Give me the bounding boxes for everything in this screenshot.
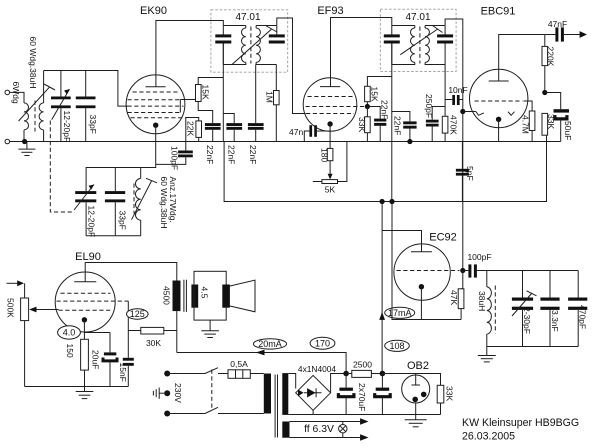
svg-text:170: 170 (315, 338, 330, 348)
secondary-speaker loop box (194, 271, 226, 320)
label 0,5A (230, 359, 248, 369)
label 100pF osc (467, 252, 491, 262)
power transformer core (275, 375, 277, 438)
svg-text:22nF: 22nF (393, 116, 403, 135)
tube EK90 (126, 75, 186, 134)
speaker voice coil (222, 285, 230, 308)
label 500K (6, 298, 16, 318)
osc tank bottom wire (487, 346, 578, 348)
label 4.5 (199, 287, 209, 299)
resistor 33K (EF93 screen divider) (365, 107, 371, 142)
dial lamp (339, 422, 347, 438)
EL90 anode wire (85, 263, 177, 282)
ground symbol OB2 (405, 420, 427, 427)
output transformer secondary 4.5 (191, 285, 198, 308)
label 1M (264, 91, 274, 103)
ground symbol osc tank (478, 347, 496, 362)
IF2 secondary top out (445, 19, 463, 100)
EL90 cathode wire (84, 320, 110, 340)
label Anz.17Wdg. (168, 177, 178, 223)
svg-text:33pF: 33pF (117, 211, 127, 230)
svg-text:108: 108 (389, 341, 404, 351)
svg-text:100pF: 100pF (170, 146, 180, 170)
bridge rectifier 4x1N4004 (296, 375, 331, 410)
label 4500 (162, 286, 172, 305)
label 4x1N4004 (298, 364, 337, 374)
label EBC91 (481, 6, 516, 18)
svg-text:4.5: 4.5 (199, 287, 209, 299)
svg-text:33K: 33K (445, 386, 455, 401)
label EF93 (317, 5, 343, 17)
L2 core dashed (133, 184, 135, 214)
resistor 15K (EK90 screen feed) (196, 78, 224, 102)
capacitor 70uF (1) (338, 374, 354, 415)
junction dot EF93 screen (365, 104, 370, 109)
label 60 Wdg.38uH osc (159, 177, 169, 229)
EK90 anode wire (156, 21, 223, 87)
svg-text:6Wdg: 6Wdg (11, 82, 21, 104)
label 470K (449, 115, 459, 135)
tube EL90 (55, 272, 128, 332)
resistor 180 (327, 148, 333, 179)
svg-text:EL90: EL90 (75, 251, 101, 263)
svg-text:15K: 15K (370, 87, 380, 102)
svg-text:26.03.2005: 26.03.2005 (462, 430, 515, 442)
label 10nF (448, 85, 467, 95)
capacitor 3.3nF (540, 271, 559, 347)
mains terminal PE (159, 390, 170, 396)
svg-text:50uF: 50uF (563, 121, 573, 140)
B+ line down with 17mA (381, 202, 383, 374)
potentiometer 500K (21, 283, 29, 386)
label 12-20pF osc (86, 206, 96, 238)
svg-text:100pF: 100pF (467, 252, 491, 262)
resistor 15K (EF93 screen) (365, 77, 392, 107)
capacitor 470pF (568, 271, 587, 347)
resistor 30K (128, 327, 176, 334)
svg-text:EBC91: EBC91 (481, 6, 516, 18)
svg-text:15nF: 15nF (118, 363, 128, 382)
svg-text:20mA: 20mA (258, 339, 282, 349)
capacitor 15nF (123, 358, 134, 387)
500K wiper arrow to EL90 grid (29, 307, 58, 313)
resistor 1M (AVC) (274, 65, 280, 142)
label 47n (289, 127, 303, 137)
EC92 anode wire (382, 231, 421, 252)
capacitor 22nF (B+ decoupling) (392, 112, 417, 142)
input arrow to 500K (7, 280, 25, 286)
junction dots B+ bus (380, 199, 395, 204)
switch link dashed (211, 370, 213, 411)
IF1 capacitor primary (215, 34, 231, 64)
IF2 capacitor secondary (437, 26, 453, 44)
heater wire bottom (290, 434, 369, 441)
antenna terminal J1 (5, 90, 24, 103)
label 6Wdg (11, 82, 21, 104)
svg-text:5pF: 5pF (465, 166, 475, 181)
svg-text:180: 180 (320, 148, 330, 162)
svg-text:15K: 15K (200, 85, 210, 100)
screen feed line to 15nF (127, 301, 129, 358)
junction dot 22nF B+ ground (407, 139, 412, 144)
svg-text:EC92: EC92 (429, 232, 457, 244)
power transformer HV secondary (282, 373, 288, 415)
output transformer primary 4500 (173, 281, 181, 353)
heater wire top (290, 418, 369, 425)
svg-text:4.0: 4.0 (63, 328, 76, 338)
ellipse 4.0 (58, 326, 81, 339)
ground symbol antenna (18, 142, 35, 156)
IF1 tuning arrow (232, 26, 277, 65)
EBC91 diode plate left (476, 112, 484, 116)
IF2 tuning arrow (400, 25, 442, 55)
svg-text:1M: 1M (264, 91, 274, 103)
switch pole 1 (205, 368, 228, 374)
label 33pF osc (117, 211, 127, 230)
variable capacitor 2-30pF (512, 271, 537, 347)
ellipse 20mA (253, 339, 286, 349)
junction dot 220K bottom (542, 90, 547, 95)
svg-text:22K: 22K (186, 121, 196, 136)
15K bottom to 22nF-1 (198, 102, 213, 124)
label 2500 (353, 360, 372, 370)
EC92 cathode return wire (392, 202, 461, 320)
svg-text:47K: 47K (449, 290, 459, 305)
svg-text:22nF: 22nF (379, 100, 389, 119)
EBC91 diode plate right (508, 112, 515, 116)
IF2 secondary coil (425, 26, 445, 65)
label EC92 (429, 232, 457, 244)
svg-text:4x1N4004: 4x1N4004 (298, 364, 337, 374)
antenna coil L1 secondary (39, 71, 44, 142)
IF1 secondary coil (256, 26, 277, 65)
svg-text:EF93: EF93 (317, 5, 343, 17)
svg-text:220K: 220K (546, 47, 556, 67)
label 250pF (424, 94, 434, 118)
20mA arrow (256, 350, 265, 356)
capacitor 100pF (osc) (463, 264, 578, 277)
IF2 secondary bottom line (444, 44, 446, 117)
speaker cone (230, 280, 255, 312)
svg-text:30K: 30K (146, 338, 161, 348)
label 15nF (118, 363, 128, 382)
IF transformer 2 box (380, 9, 456, 71)
bridge output wire (331, 374, 347, 393)
resistor 22K (osc grid leak) (196, 121, 202, 142)
cathode ground bus (25, 386, 129, 388)
mains terminal L (164, 371, 205, 377)
EK90 cathode wire (155, 125, 157, 167)
svg-text:125: 125 (130, 309, 145, 319)
potentiometer 5K (313, 142, 347, 184)
capacitor 70uF (2) (375, 374, 391, 415)
capacitor 250pF (426, 107, 445, 142)
capacitor 20uF (103, 333, 117, 387)
IF1 capacitor secondary (269, 26, 285, 44)
ellipse 108 (385, 340, 410, 351)
junction dot antenna ground (22, 139, 27, 144)
svg-text:20uF: 20uF (91, 350, 101, 369)
EK90 screen bracket g2+g4 (180, 85, 198, 113)
label 47.01 (235, 12, 260, 23)
38uH core dashed (494, 286, 496, 334)
17mA arrow (379, 312, 385, 320)
svg-text:12-20pF: 12-20pF (86, 206, 96, 238)
label 33K EBC91 (546, 114, 556, 129)
tube OB2 (402, 374, 430, 420)
svg-text:22nF: 22nF (205, 145, 215, 164)
svg-text:10nF: 10nF (448, 85, 467, 95)
oscillator tank top wire (86, 168, 156, 192)
EBC91 cathode wire (498, 119, 500, 141)
capacitor 22nF (2) (226, 123, 242, 141)
svg-text:3.3nF: 3.3nF (550, 310, 560, 332)
L2 trimmer arrow (132, 178, 158, 219)
label 22nF (1) (205, 145, 215, 164)
oscillator coil L2 (136, 168, 141, 236)
svg-text:47.01: 47.01 (405, 12, 430, 23)
label 22nF EF93-2 (393, 116, 403, 135)
IF2 capacitor primary (384, 34, 400, 64)
junction dot B+ rectifier (343, 371, 349, 377)
svg-text:150: 150 (65, 344, 75, 358)
label 2-30pF (522, 307, 532, 334)
junction dot 2500 right (380, 371, 386, 377)
capacitor 100pF (osc grid) (156, 151, 193, 165)
variable capacitor C3 12-20pF (74, 185, 96, 236)
capacitor 50uF (545, 93, 569, 142)
EF93 cathode wire (329, 124, 331, 148)
svg-text:470K: 470K (449, 115, 459, 135)
label 180 (320, 148, 330, 162)
svg-text:470pF: 470pF (578, 305, 588, 329)
L1 trimmer arrow (19, 84, 55, 121)
label 230V (173, 383, 183, 403)
label 22K (186, 121, 196, 136)
ground bus (9, 141, 560, 143)
capacitor 5pF (456, 142, 469, 202)
output wire 47nF (545, 27, 587, 41)
label 470pF (578, 305, 588, 329)
svg-text:47n: 47n (289, 127, 303, 137)
resistor 4.7M (529, 111, 535, 142)
label 47.01 IF2 (405, 12, 430, 23)
switch pole 2 (205, 407, 264, 413)
label 100pF (170, 146, 180, 170)
svg-text:2x70uF: 2x70uF (357, 383, 367, 411)
resistor 220K (542, 35, 548, 93)
coil coupling dashed (34, 101, 36, 132)
variable capacitor C1 12-20pF (51, 71, 71, 142)
inductor 38uH (487, 271, 492, 347)
label 12-20pF (62, 111, 72, 143)
label 2x70uF (357, 383, 367, 411)
output transformer core (184, 280, 187, 312)
svg-text:Anz.17Wdg.: Anz.17Wdg. (168, 177, 178, 223)
resistor 33K (EBC91) (542, 113, 548, 135)
oscillator tank bottom wire (86, 235, 141, 237)
label 20uF (91, 350, 101, 369)
B+ bus (224, 135, 546, 202)
IF2 primary coil (392, 26, 415, 65)
label EK90 (140, 5, 167, 17)
svg-text:0,5A: 0,5A (230, 359, 248, 369)
IF1 secondary top out to EF93 grid (277, 18, 306, 114)
svg-text:12-20pF: 12-20pF (62, 111, 72, 143)
resistor 470K (442, 116, 448, 141)
20mA B+ bus (177, 353, 346, 374)
svg-text:33K: 33K (546, 114, 556, 129)
EBC91 anode wire (499, 35, 545, 82)
capacitor C2 33pF (76, 71, 96, 142)
label EL90 (75, 251, 101, 263)
svg-text:38uH: 38uH (477, 291, 487, 311)
IF1 left line down (B+ feed) (222, 44, 224, 142)
label 5pF (465, 166, 475, 181)
capacitor 22nF (3) (248, 65, 264, 142)
ground symbol speaker (201, 320, 219, 337)
label 50uF (563, 121, 573, 140)
IF2 left line down to B+ bus (391, 44, 393, 202)
capacitor 22nF (1) (205, 123, 221, 141)
resistor 2500 (346, 370, 382, 377)
label 47nF (548, 19, 567, 29)
svg-text:OB2: OB2 (407, 360, 429, 372)
label 5K (325, 184, 336, 194)
fuse 0,5A (228, 370, 264, 379)
EK90 g1 wire to 22K and 100pF (186, 118, 199, 151)
capacitor C4 33pF (105, 168, 125, 236)
power transformer primary (264, 374, 271, 414)
tube EC92 (394, 244, 460, 300)
tube EF93 (303, 78, 367, 132)
svg-text:60 Wdg.38uH: 60 Wdg.38uH (28, 37, 38, 89)
label 33K EF93 (357, 117, 367, 132)
node: tuned circuit 1 top wire (44, 71, 128, 107)
label 22nF EF93-1 (379, 100, 389, 119)
antenna coil L1 primary (24, 103, 29, 142)
label 22nF (2) (226, 145, 236, 164)
svg-text:ff 6.3V: ff 6.3V (304, 424, 334, 435)
label 33pF (88, 115, 98, 134)
capacitor 47n (cathode bypass) (304, 125, 330, 141)
ground terminal J2 (5, 139, 10, 144)
label 220K (546, 47, 556, 67)
bridge bottom return wire (288, 410, 440, 414)
svg-text:47nF: 47nF (548, 19, 567, 29)
resistor 150 (81, 339, 89, 391)
label 15K (200, 85, 210, 100)
label ff 6.3V (304, 424, 334, 435)
grid line to EC92 (462, 100, 464, 271)
svg-text:17mA: 17mA (388, 308, 412, 318)
filter wire to OB2 and 33K (382, 374, 440, 386)
HV winding top wire to bridge (288, 374, 295, 389)
IF transformer 1 box (211, 10, 288, 72)
svg-text:KW Kleinsuper HB9BGG: KW Kleinsuper HB9BGG (462, 417, 579, 429)
capacitor 10nF (445, 95, 463, 105)
label 33K OB2 (445, 386, 455, 401)
svg-text:22nF: 22nF (248, 145, 258, 164)
svg-text:47.01: 47.01 (235, 12, 260, 23)
label 38uH (477, 291, 487, 311)
ellipse 170 (310, 337, 335, 349)
tube EBC91 (470, 69, 528, 127)
ground symbol EL90 cathode (76, 392, 94, 399)
22nF-2 tap on B+ line (223, 114, 234, 124)
ground symbol mains (153, 388, 159, 399)
label 47K (449, 290, 459, 305)
label 30K (146, 338, 161, 348)
label 22nF (3) (248, 145, 258, 164)
label 60 Wdg.38uH (28, 37, 38, 89)
svg-text:60 Wdg.38uH: 60 Wdg.38uH (159, 177, 169, 229)
resistor 47K (458, 271, 464, 320)
label 150 (65, 344, 75, 358)
svg-text:4500: 4500 (162, 286, 172, 305)
mains terminal N (164, 411, 205, 417)
power transformer 6.3V winding (282, 422, 289, 438)
capacitor 22nF (EF93 screen bypass) (367, 107, 386, 142)
svg-text:22nF: 22nF (226, 145, 236, 164)
junction dot EC92 grid (460, 268, 465, 273)
svg-text:250pF: 250pF (424, 94, 434, 118)
EBC91 grid wire to 4.7M (524, 101, 533, 111)
svg-text:33pF: 33pF (88, 115, 98, 134)
IF1 primary coil (223, 26, 246, 65)
ellipse 17mA (385, 307, 415, 318)
svg-text:230V: 230V (173, 383, 183, 403)
IF1 coupling dashed (250, 27, 252, 64)
IF2 coupling dashed (419, 27, 421, 64)
svg-text:500K: 500K (6, 298, 16, 318)
label 15K EF93 (370, 87, 380, 102)
svg-text:5K: 5K (325, 184, 336, 194)
gang dashed link (50, 121, 74, 213)
resistor 33K (OB2) (437, 385, 444, 414)
svg-text:2-30pF: 2-30pF (522, 307, 532, 334)
svg-text:2500: 2500 (353, 360, 372, 370)
svg-text:4.7M: 4.7M (520, 115, 530, 134)
title KW Kleinsuper HB9BGG (462, 417, 579, 429)
date 26.03.2005 (462, 430, 515, 442)
ellipse 125 (127, 309, 149, 319)
svg-text:EK90: EK90 (140, 5, 167, 17)
label 3.3nF (550, 310, 560, 332)
EF93 anode wire (331, 18, 392, 87)
junction dot diode plate (460, 109, 476, 114)
svg-text:33K: 33K (357, 117, 367, 132)
label OB2 (407, 360, 429, 372)
label 4.7M (520, 115, 530, 134)
